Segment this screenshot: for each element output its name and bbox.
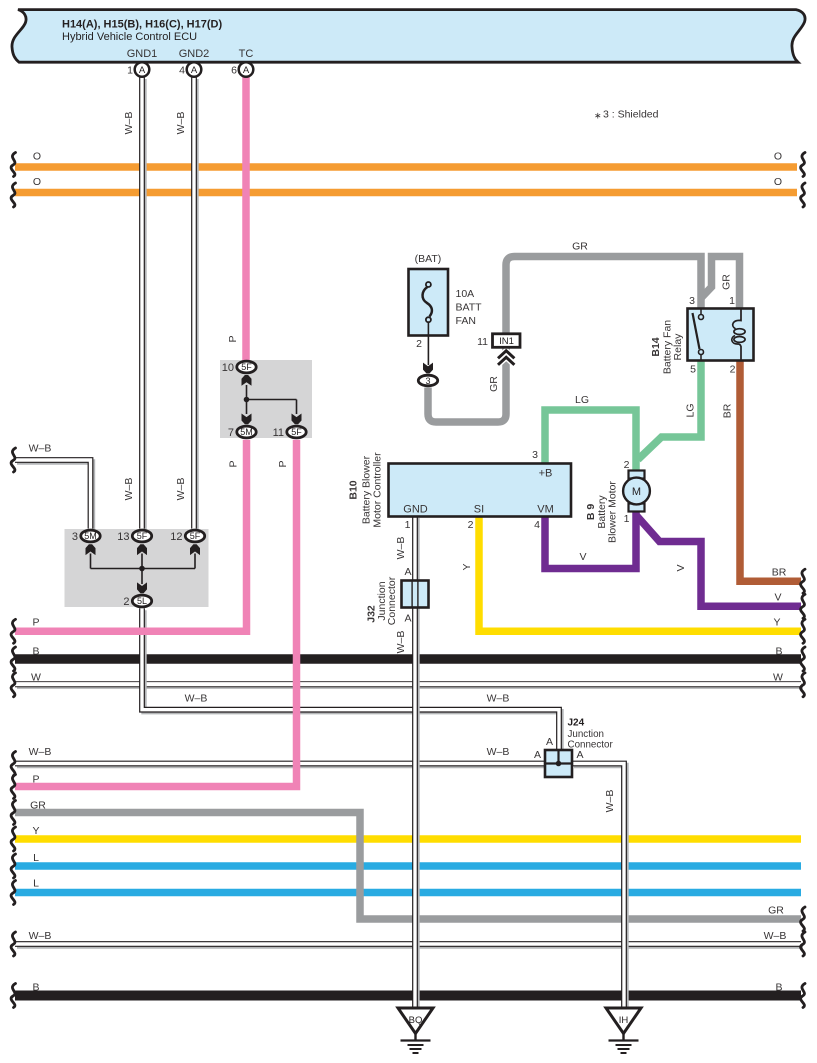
svg-text:4: 4: [179, 65, 185, 77]
svg-text:P: P: [32, 616, 39, 628]
svg-text:P: P: [227, 335, 239, 342]
svg-text:W–B: W–B: [123, 478, 135, 501]
svg-text:B: B: [32, 982, 39, 994]
svg-text:L: L: [33, 878, 39, 890]
svg-text:GR: GR: [30, 800, 46, 812]
svg-text:H14(A), H15(B), H16(C), H17(D): H14(A), H15(B), H16(C), H17(D): [62, 19, 222, 31]
svg-text:1: 1: [405, 519, 411, 531]
svg-text:5F: 5F: [137, 531, 148, 541]
svg-text:M: M: [632, 486, 641, 498]
svg-text:2: 2: [123, 596, 129, 608]
svg-text:VM: VM: [537, 504, 554, 516]
svg-text:BQ: BQ: [409, 1015, 423, 1026]
svg-text:GND2: GND2: [179, 48, 210, 60]
svg-text:FAN: FAN: [456, 315, 476, 327]
svg-text:3: 3: [689, 295, 695, 307]
svg-text:IN1: IN1: [499, 336, 514, 347]
svg-text:Connector: Connector: [568, 740, 614, 751]
svg-text:5: 5: [690, 364, 696, 376]
svg-text:O: O: [33, 151, 41, 163]
svg-text:Y: Y: [773, 616, 780, 628]
svg-text:O: O: [774, 151, 782, 163]
svg-text:W–B: W–B: [604, 790, 616, 813]
svg-text:B: B: [775, 982, 782, 994]
svg-text:BATT: BATT: [456, 302, 483, 314]
svg-text:A: A: [404, 566, 411, 578]
svg-text:LG: LG: [685, 403, 697, 417]
svg-text:Junction: Junction: [568, 729, 605, 740]
svg-text:GND: GND: [403, 504, 428, 516]
svg-text:5F: 5F: [241, 362, 252, 372]
svg-text:P: P: [228, 460, 240, 467]
svg-text:B10: B10: [348, 480, 360, 499]
svg-text:5F: 5F: [190, 531, 201, 541]
svg-text:A: A: [546, 736, 553, 748]
svg-text:V: V: [675, 564, 687, 571]
svg-text:GR: GR: [768, 905, 784, 917]
svg-text:10A: 10A: [456, 288, 475, 300]
svg-text:1: 1: [127, 65, 133, 77]
svg-text:2: 2: [624, 459, 630, 471]
svg-text:W: W: [31, 671, 41, 683]
svg-text:5M: 5M: [240, 427, 253, 437]
svg-text:P: P: [277, 460, 289, 467]
svg-text:O: O: [33, 176, 41, 188]
svg-text:(BAT): (BAT): [415, 253, 442, 265]
svg-text:W: W: [773, 671, 783, 683]
svg-text:W–B: W–B: [395, 537, 407, 560]
svg-text:2: 2: [416, 338, 422, 350]
svg-text:W–B: W–B: [185, 693, 208, 705]
svg-text:LG: LG: [575, 394, 589, 406]
svg-text:11: 11: [477, 336, 488, 348]
svg-text:J24: J24: [568, 718, 585, 729]
svg-text:GND1: GND1: [127, 48, 158, 60]
svg-text:B14: B14: [650, 337, 662, 356]
svg-text:P: P: [32, 774, 39, 786]
svg-text:V: V: [774, 592, 781, 604]
svg-text:Y: Y: [32, 825, 39, 837]
svg-text:W–B: W–B: [395, 631, 407, 654]
svg-text:W–B: W–B: [175, 478, 187, 501]
svg-text:10: 10: [222, 362, 234, 374]
svg-text:B: B: [775, 645, 782, 657]
svg-text:5M: 5M: [84, 531, 97, 541]
svg-text:W–B: W–B: [487, 746, 510, 758]
svg-text:W–B: W–B: [123, 112, 135, 135]
svg-text:3: 3: [425, 376, 430, 386]
svg-text:GR: GR: [572, 241, 588, 253]
svg-text:W–B: W–B: [764, 930, 787, 942]
svg-text:3: 3: [532, 449, 538, 461]
svg-text:B: B: [32, 645, 39, 657]
svg-text:A: A: [243, 65, 250, 76]
svg-text:12: 12: [170, 531, 182, 543]
svg-text:+B: +B: [539, 468, 553, 480]
svg-text:A: A: [404, 613, 411, 625]
svg-text:Relay: Relay: [672, 333, 684, 361]
svg-text:1: 1: [624, 513, 630, 525]
svg-text:1: 1: [729, 295, 735, 307]
svg-text:A: A: [534, 749, 541, 761]
svg-text:SI: SI: [474, 504, 484, 516]
svg-text:Connector: Connector: [386, 576, 398, 625]
svg-text:GR: GR: [488, 376, 500, 392]
svg-text:13: 13: [117, 531, 129, 543]
svg-text:W–B: W–B: [29, 746, 52, 758]
svg-text:7: 7: [228, 427, 234, 439]
svg-text:GR: GR: [721, 274, 733, 290]
svg-text:W–B: W–B: [487, 693, 510, 705]
svg-text:11: 11: [273, 427, 284, 439]
svg-text:TC: TC: [239, 48, 254, 60]
svg-text:2: 2: [468, 519, 474, 531]
svg-text:4: 4: [534, 519, 540, 531]
svg-text:5L: 5L: [137, 596, 147, 606]
svg-text:2: 2: [730, 364, 736, 376]
svg-text:Hybrid Vehicle Control ECU: Hybrid Vehicle Control ECU: [62, 31, 197, 43]
svg-text:3 : Shielded: 3 : Shielded: [603, 109, 659, 121]
svg-text:A: A: [139, 65, 146, 76]
svg-text:A: A: [577, 749, 584, 761]
svg-text:3: 3: [72, 531, 78, 543]
svg-text:BR: BR: [722, 403, 734, 418]
svg-text:W–B: W–B: [29, 930, 52, 942]
svg-text:5F: 5F: [291, 427, 302, 437]
svg-text:6: 6: [231, 65, 237, 77]
svg-text:∗: ∗: [594, 111, 602, 121]
svg-text:Motor Controller: Motor Controller: [372, 452, 384, 528]
svg-text:O: O: [774, 176, 782, 188]
svg-text:IH: IH: [619, 1015, 629, 1026]
svg-text:Y: Y: [461, 563, 473, 570]
svg-text:BR: BR: [772, 567, 787, 579]
svg-text:L: L: [33, 852, 39, 864]
svg-text:W–B: W–B: [175, 112, 187, 135]
svg-text:W–B: W–B: [29, 443, 52, 455]
svg-text:A: A: [191, 65, 198, 76]
svg-text:V: V: [579, 551, 586, 563]
svg-text:Blower Motor: Blower Motor: [607, 481, 619, 543]
